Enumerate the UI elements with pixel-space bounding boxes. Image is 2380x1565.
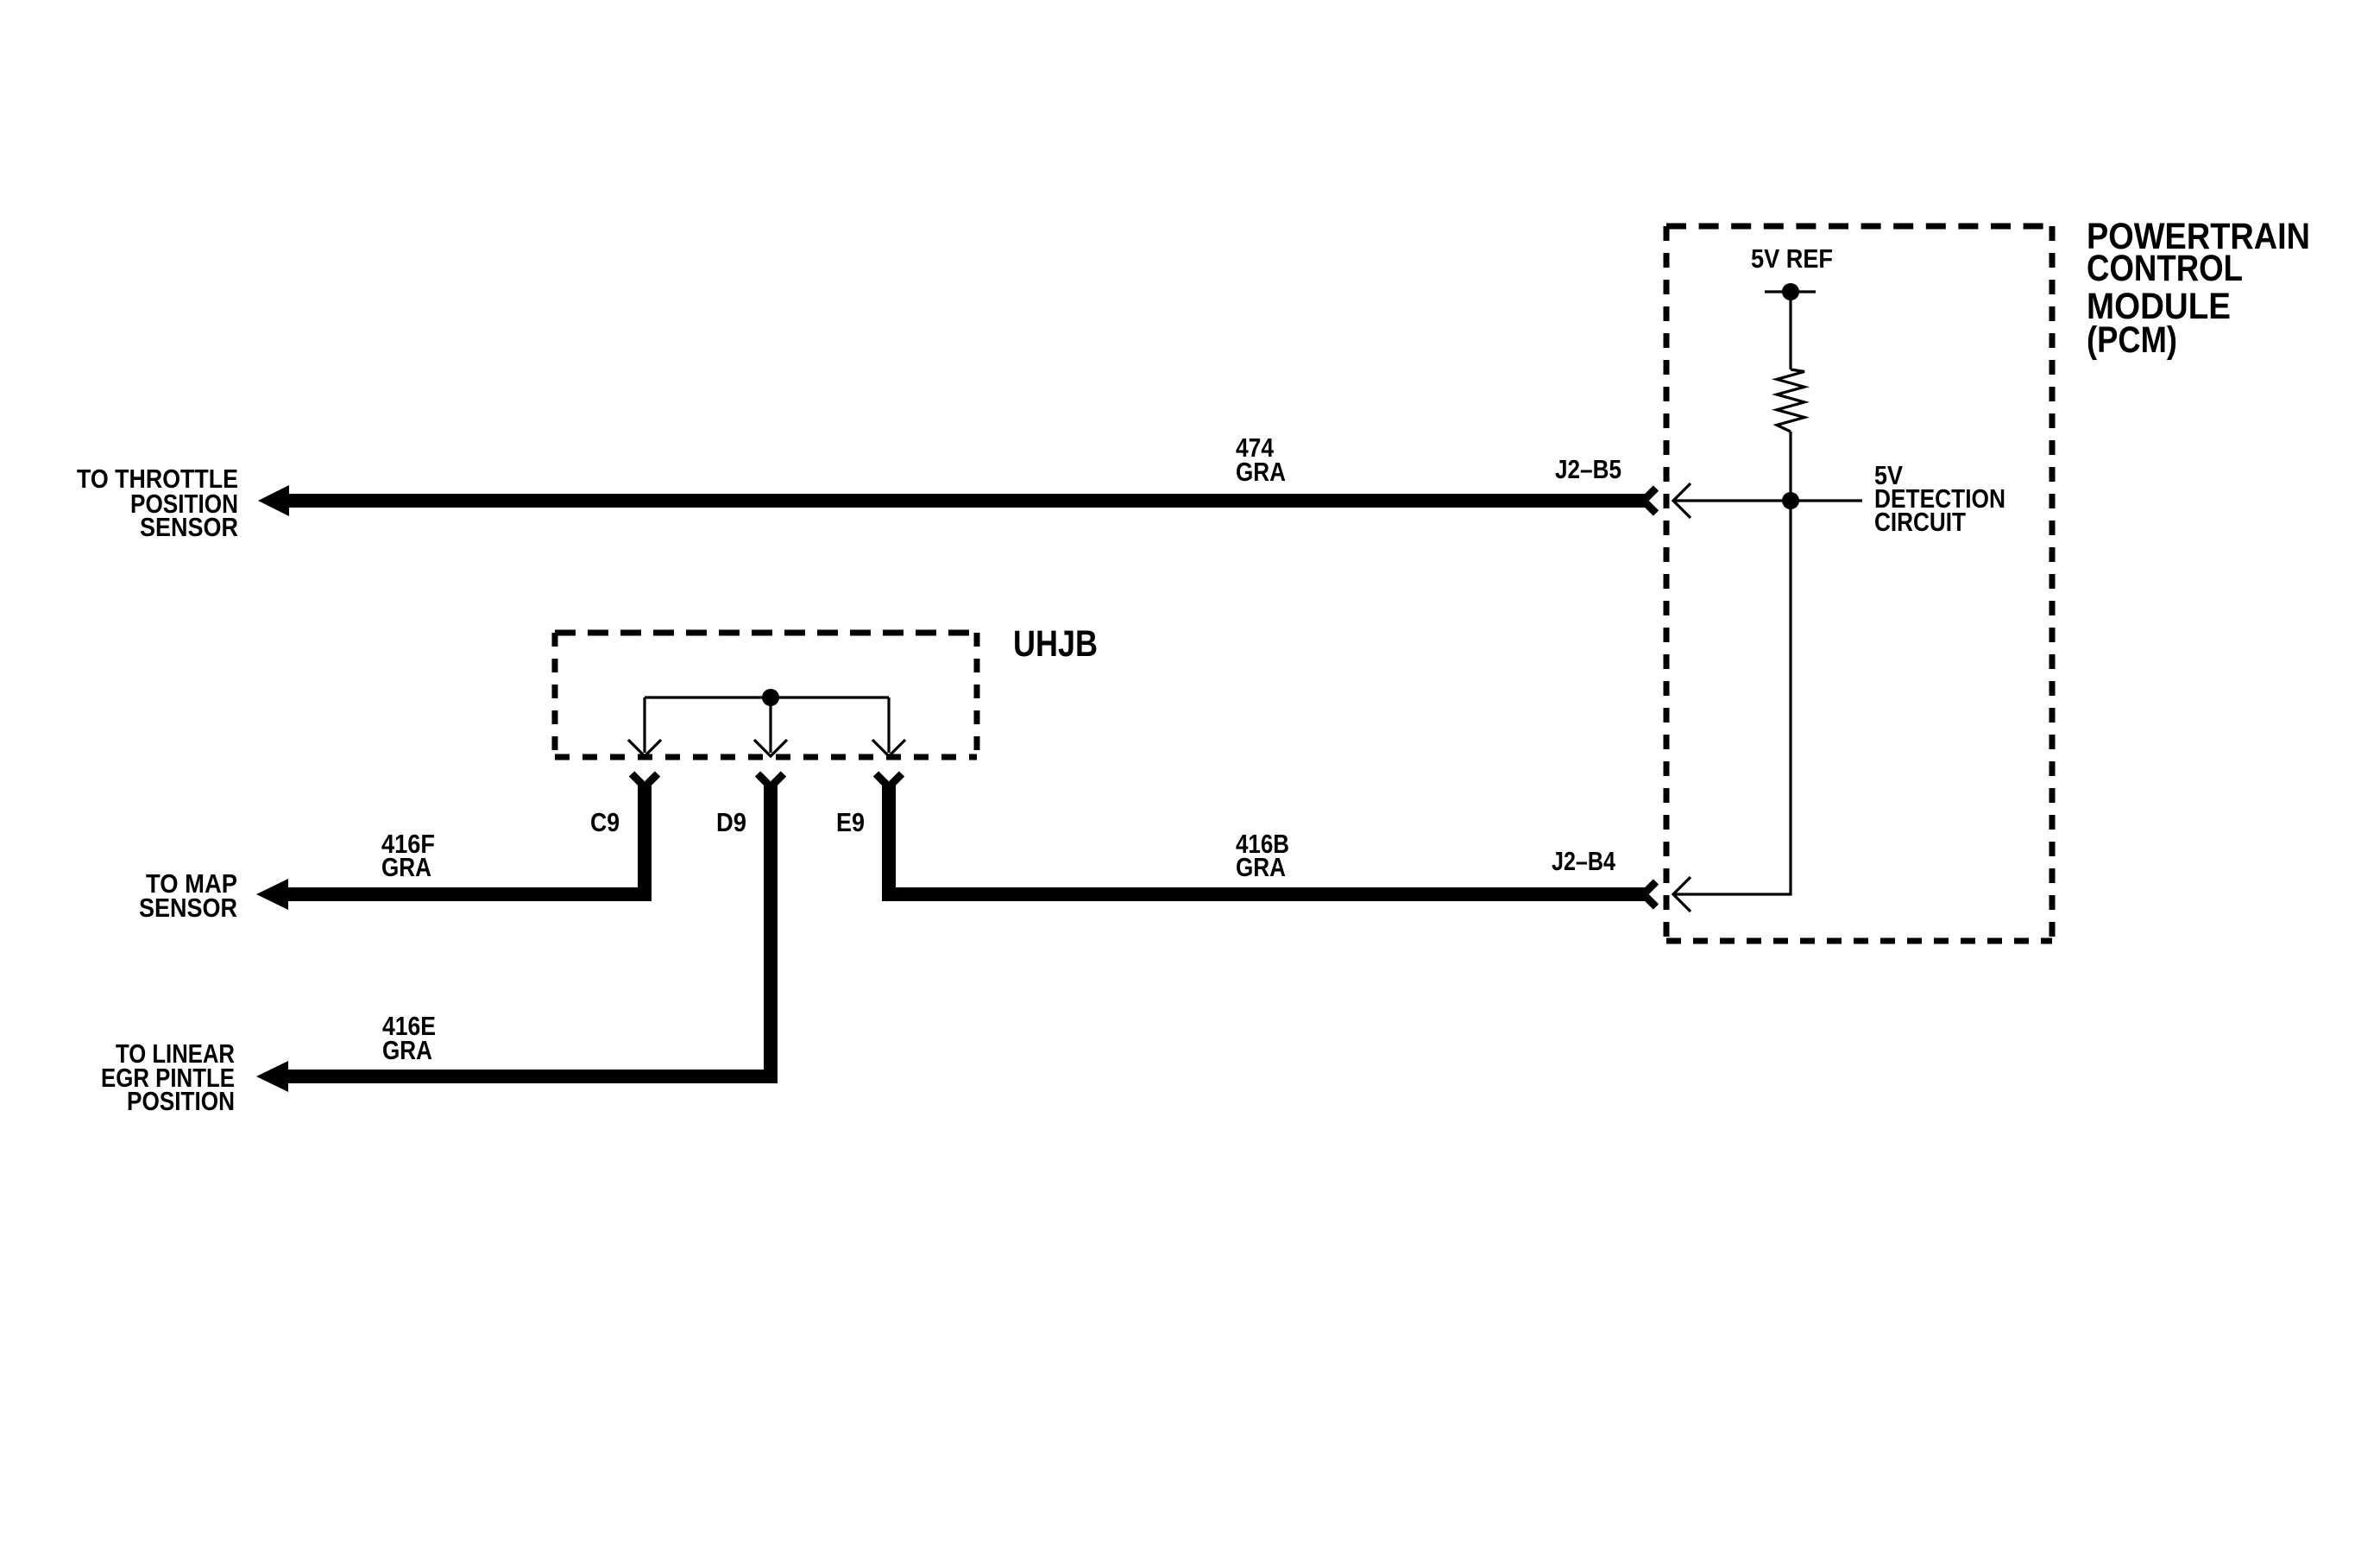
svg-text:J2–B4: J2–B4	[1552, 846, 1616, 876]
svg-text:GRA: GRA	[1236, 852, 1286, 882]
svg-text:CONTROL: CONTROL	[2087, 248, 2243, 289]
svg-text:(PCM): (PCM)	[2087, 319, 2177, 361]
svg-text:CIRCUIT: CIRCUIT	[1874, 507, 1966, 537]
svg-text:J2–B5: J2–B5	[1555, 454, 1621, 484]
svg-text:GRA: GRA	[1236, 457, 1286, 487]
svg-text:GRA: GRA	[382, 1035, 432, 1065]
svg-text:C9: C9	[590, 807, 620, 837]
svg-text:GRA: GRA	[381, 852, 431, 882]
svg-text:UHJB: UHJB	[1013, 623, 1098, 665]
svg-text:SENSOR: SENSOR	[139, 893, 237, 923]
svg-text:SENSOR: SENSOR	[140, 512, 238, 542]
svg-text:POSITION: POSITION	[127, 1086, 235, 1116]
svg-text:D9: D9	[716, 807, 746, 837]
svg-text:5V REF: 5V REF	[1751, 243, 1833, 274]
svg-text:E9: E9	[836, 807, 865, 837]
